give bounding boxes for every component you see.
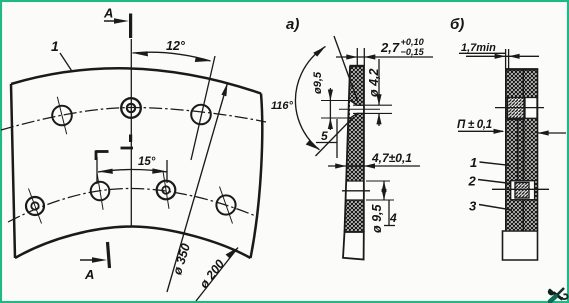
svg-text:2: 2 [468,174,477,189]
dia 9.5 lower hole dimension [366,181,394,233]
2.7 dimension with tolerances [336,37,433,66]
svg-text:2,7: 2,7 [380,40,400,55]
plate outline [11,68,262,258]
label 1 with leader [51,38,72,71]
section A-A bottom marker [80,242,110,282]
hole H4 double [26,189,44,224]
svg-text:ø 9,5: ø 9,5 [370,203,384,233]
svg-text:3: 3 [469,199,477,214]
svg-text:A: A [103,6,113,21]
lower rivet with clearance hole [511,181,535,200]
dash-dot centerline arc, hole row 2 [8,188,258,222]
lining strip section (crosshatched) [343,66,365,260]
hole H3 plain [191,105,211,125]
4.7 +-0.1 dimension [328,151,420,169]
hole H1 plain [52,97,72,135]
vertical centerline / section trace through H2 [130,39,132,227]
svg-text:1: 1 [470,155,477,170]
dia 350 dimension line with arrow on outer arc [167,83,228,292]
P +-0.1 dimension [457,119,566,136]
svg-text:1: 1 [51,38,59,54]
15 deg dimension [97,156,167,184]
svg-text:4,7±0,1: 4,7±0,1 [371,151,412,165]
svg-text:4: 4 [389,211,397,225]
svg-text:+0,10: +0,10 [401,37,425,47]
svg-text:б): б) [450,16,464,33]
white hole: plain hole 9.5 [346,181,364,200]
section A-A top marker [103,6,131,39]
hole outlines [345,101,364,201]
svg-text:15°: 15° [138,156,156,168]
part labels 1,2,3 with leaders [468,155,513,214]
bottom unhatched part [343,232,364,260]
upper rivet axis [495,107,544,109]
svg-text:12°: 12° [166,39,186,53]
hole H6 double [157,171,176,209]
section step marks (stepped cutting plane) [96,135,134,161]
watermark: crossed tools icon bottom right [548,288,568,302]
hole axis lines [339,108,380,110]
svg-text:5: 5 [321,129,328,143]
svg-text:1,7min: 1,7min [461,42,496,54]
svg-text:−0,15: −0,15 [401,47,425,57]
rivet shank walls between holes [518,119,524,182]
4 dimension bracket [384,200,397,226]
white rivet zones [507,98,538,119]
svg-text:ø 4,2: ø 4,2 [367,68,381,97]
two-layer pack: left lining layer [503,69,539,260]
bottom unhatched part [503,231,538,260]
hole H5 plain [91,172,110,210]
white hole: countersunk rivet hole [350,101,364,119]
dia 200 dimension line with arrow on inner arc [196,248,238,302]
hole H2 double (on centerline) [121,98,141,118]
dia 4.2 dimension [353,59,392,126]
12 deg dimension [133,39,211,62]
lower rivet axis [492,188,549,190]
dash-dot centerline arc, hole row 1 [1,108,266,131]
svg-text:ø9,5: ø9,5 [312,71,324,94]
116 deg countersink angle dimension [271,36,358,156]
upper rivet (metal, diagonal hatch) [507,98,537,120]
svg-text:116°: 116° [271,100,294,112]
svg-text:A: A [84,267,94,282]
hole H7 plain [216,187,235,224]
5 leader [316,119,337,158]
svg-text:а): а) [286,16,299,33]
dia 9.5 countersink dimension [312,71,351,130]
svg-text:П ± 0,1: П ± 0,1 [457,119,492,131]
1.7 min dimension [459,42,539,69]
radial line through H3 (12deg extension) [191,56,215,160]
